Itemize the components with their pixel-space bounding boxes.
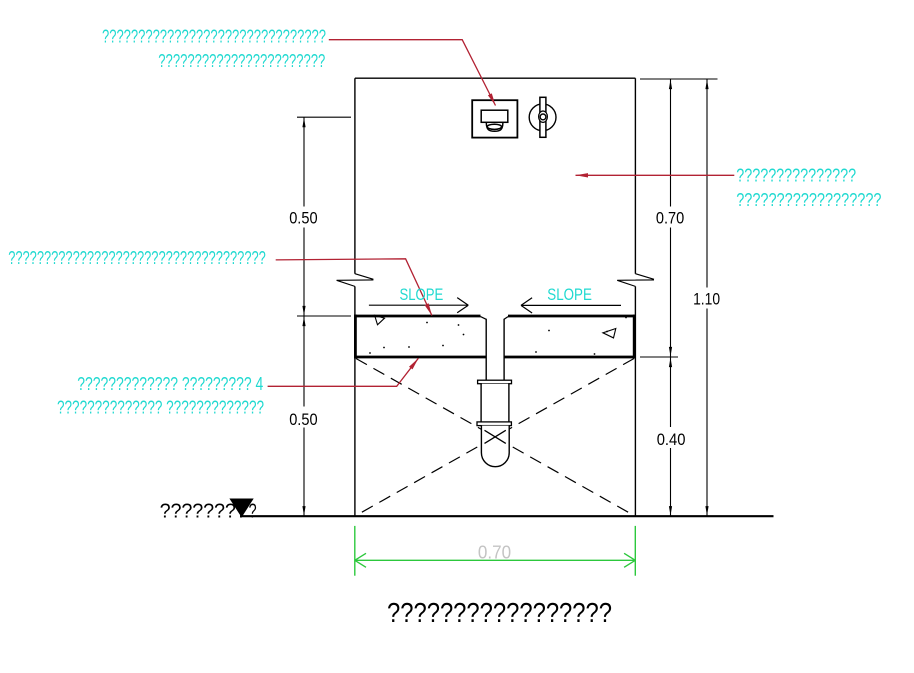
svg-text:??????????????????????????????: ???????????????????????????????	[102, 27, 326, 47]
aggregate triangle right	[603, 329, 616, 338]
extension lines	[297, 79, 718, 357]
dashed diagonal cross in pit	[356, 359, 634, 516]
left dim line 0.50/0.50	[303, 117, 305, 515]
svg-text:SLOPE: SLOPE	[400, 285, 444, 304]
trap upper flange	[478, 380, 512, 384]
svg-text:0.50: 0.50	[289, 411, 317, 429]
dimension lines	[304, 79, 707, 516]
concrete aggregate dots in slab	[369, 317, 627, 355]
wall faucet box	[472, 100, 517, 137]
red leader to slab top	[276, 259, 432, 316]
svg-text:????????????? ????????? 4: ????????????? ????????? 4	[77, 374, 263, 394]
svg-text:0.70: 0.70	[478, 541, 511, 562]
green bottom dimension 0.70	[355, 526, 636, 576]
dimension arrowheads	[302, 80, 708, 516]
datum level triangle	[229, 499, 253, 518]
trap body	[482, 384, 508, 422]
svg-text:0.70: 0.70	[656, 209, 684, 227]
floor slab thick outline	[354, 315, 635, 359]
SLOPE labels	[400, 285, 592, 304]
wall top line	[355, 77, 636, 79]
cyan annotation texts	[8, 27, 881, 418]
svg-text:???????????????: ???????????????	[736, 166, 856, 186]
red leader to slab underside	[268, 358, 419, 386]
left wall lower	[354, 286, 356, 515]
red leader to wall surface	[576, 174, 735, 176]
trap lower flange	[477, 422, 511, 426]
dimension texts	[289, 209, 720, 449]
ground base line	[240, 515, 774, 517]
slab drain chamfers	[481, 317, 509, 320]
ground level text	[160, 499, 257, 522]
svg-text:??????????????????: ??????????????????	[736, 190, 881, 210]
svg-text:?????????????? ?????????????: ?????????????? ?????????????	[57, 398, 264, 418]
right wall break symbol	[617, 274, 654, 287]
slab top extension	[297, 315, 351, 317]
faucet centerline extension	[297, 116, 351, 118]
right dim line 0.70/0.40	[670, 79, 672, 516]
trap cup with round bottom	[481, 426, 509, 467]
drain trap pipe	[477, 319, 512, 467]
left wall upper	[354, 78, 356, 274]
left wall break symbol	[337, 274, 654, 287]
slope arrows	[369, 298, 621, 313]
X mark in cup	[485, 430, 506, 443]
valve symbol	[529, 97, 556, 137]
svg-text:???????????????????????: ???????????????????????	[158, 51, 325, 71]
red leader to faucet box	[268, 40, 735, 387]
svg-text:0.50: 0.50	[289, 209, 317, 227]
white gaps for dim text	[286, 207, 725, 449]
svg-text:0.40: 0.40	[657, 431, 686, 449]
right wall lower	[634, 286, 636, 515]
wall top extension	[640, 78, 718, 80]
svg-text:?????????????????: ?????????????????	[387, 597, 612, 628]
right dim line 1.10	[706, 79, 708, 516]
svg-text:??????????????????????????????: ????????????????????????????????????	[8, 248, 266, 268]
slab bottom extension	[640, 356, 678, 358]
tank walls	[355, 78, 636, 515]
right wall upper	[634, 78, 636, 274]
svg-text:SLOPE: SLOPE	[547, 285, 592, 304]
aggregate triangle left	[375, 315, 385, 325]
svg-text:1.10: 1.10	[693, 290, 720, 308]
